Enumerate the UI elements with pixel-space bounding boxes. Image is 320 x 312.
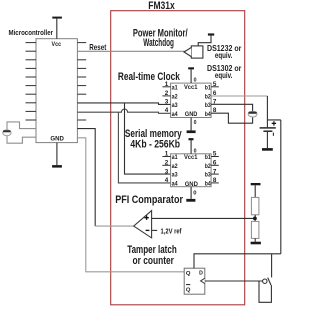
wire RTC b2 to battery	[211, 95, 267, 97]
ground below battery	[262, 148, 273, 151]
wire bus SDA from uC to RTC a4 with hop	[77, 109, 170, 113]
watchdog reset-generator symbol	[184, 46, 203, 58]
svg-text:4Kb - 256Kb: 4Kb - 256Kb	[130, 138, 180, 150]
svg-text:Q: Q	[186, 287, 191, 293]
Vcc bar above RTC	[188, 67, 196, 83]
svg-text:b1: b1	[205, 84, 211, 91]
DS1302 label	[207, 63, 242, 80]
microcontroller left pin stubs	[26, 43, 37, 120]
wire PFI output to uC	[77, 129, 95, 227]
wire divider middle	[254, 215, 256, 222]
svg-text:0: 0	[193, 191, 196, 197]
svg-text:Microcontroller: Microcontroller	[9, 30, 54, 37]
flip-flop U4	[184, 268, 205, 294]
wire comparator plus input to divider	[152, 217, 256, 219]
svg-text:0: 0	[194, 77, 197, 83]
serial memory U3 box	[171, 154, 212, 188]
svg-text:Watchdog: Watchdog	[143, 37, 174, 49]
wire RTC b3 to crystal top	[211, 104, 253, 111]
resistor R2	[251, 221, 259, 238]
svg-text:3: 3	[165, 168, 169, 175]
microcontroller right pin stubs	[77, 43, 86, 120]
serial pin numbers right	[213, 151, 217, 185]
wire bus SCL from uC to RTC a3	[77, 103, 170, 105]
svg-text:b3: b3	[205, 102, 211, 109]
ground below microcontroller	[52, 143, 62, 168]
svg-text:1,2V ref: 1,2V ref	[161, 229, 183, 236]
svg-text:b4: b4	[205, 111, 211, 118]
svg-text:GND: GND	[50, 135, 64, 142]
RTC U2 box	[171, 83, 212, 118]
wire comparator minus stub	[152, 229, 158, 231]
Power Monitor/Watchdog label	[133, 27, 188, 49]
serial right stubs 5-8	[211, 157, 219, 183]
svg-text:a2: a2	[172, 94, 178, 101]
svg-text:a4: a4	[172, 111, 178, 118]
Vcc bar above serial memory	[189, 138, 197, 154]
crystal Y1 loop on microcontroller left	[3, 122, 36, 143]
svg-text:0: 0	[194, 148, 197, 154]
svg-text:Q: Q	[186, 271, 191, 277]
RTC pin numbers right	[213, 81, 217, 114]
svg-text:a2: a2	[172, 163, 178, 170]
svg-text:b1: b1	[205, 154, 211, 161]
ground below serial memory	[186, 187, 196, 202]
svg-text:0: 0	[194, 120, 197, 126]
svg-text:D: D	[199, 270, 203, 276]
svg-text:Vcc: Vcc	[52, 42, 62, 48]
wire uC to flip-flop Q (gray)	[77, 138, 184, 272]
Vcc bar above microcontroller	[52, 17, 62, 39]
svg-text:equiv.: equiv.	[215, 70, 232, 80]
RTC pin numbers left	[165, 81, 169, 114]
RTC pin 1-2 stubs	[162, 87, 170, 96]
svg-text:4: 4	[165, 177, 169, 184]
wire branch to serial a4	[118, 112, 170, 183]
FM31x boundary box	[111, 11, 245, 305]
svg-text:a3: a3	[172, 172, 178, 179]
microcontroller U1 box	[36, 39, 77, 143]
Vcc bar above divider	[251, 183, 261, 197]
ground below RTC	[187, 118, 197, 134]
svg-text:b3: b3	[205, 172, 211, 179]
node junction dot	[253, 217, 257, 221]
svg-text:b2: b2	[205, 163, 211, 170]
svg-text:b4: b4	[205, 181, 211, 188]
svg-text:Real-time Clock: Real-time Clock	[118, 71, 181, 83]
serial pin numbers left	[165, 151, 169, 185]
svg-text:Vcc1: Vcc1	[184, 154, 198, 161]
ground below divider	[251, 238, 261, 244]
wire clock input from switch	[205, 280, 263, 282]
resistor R1	[251, 197, 259, 214]
battery BT1	[260, 121, 277, 148]
svg-text:Reset: Reset	[89, 42, 106, 52]
svg-text:GND: GND	[185, 111, 198, 118]
svg-text:PFI Comparator: PFI Comparator	[115, 194, 183, 206]
svg-text:Vcc1: Vcc1	[184, 84, 198, 91]
svg-text:or counter: or counter	[133, 255, 174, 267]
Tamper latch label	[127, 244, 177, 267]
wire flip-flop D up and across	[194, 254, 281, 268]
wire reset	[77, 50, 184, 52]
wire branch to serial a3	[125, 103, 171, 174]
svg-text:b2: b2	[205, 94, 211, 101]
Serial memory label	[125, 128, 182, 150]
op-amp PFI comparator	[134, 211, 152, 238]
svg-text:equiv.: equiv.	[215, 50, 232, 60]
svg-text:a4: a4	[172, 181, 178, 188]
RTC pin 5 stub	[211, 86, 219, 88]
svg-text:a1: a1	[172, 84, 178, 91]
svg-text:a3: a3	[172, 102, 178, 109]
serial pin 1-2 stubs	[162, 157, 170, 166]
crystal Y2 for RTC	[248, 111, 257, 117]
wire battery rail	[267, 96, 280, 127]
Vcc bar above watchdog	[198, 33, 214, 46]
wire right rail down to tamper switch	[280, 120, 282, 254]
svg-text:a1: a1	[172, 154, 178, 161]
DS1232 label	[207, 43, 242, 60]
tamper switch S1	[259, 254, 272, 302]
wire RTC b4 to crystal bottom	[211, 113, 253, 123]
